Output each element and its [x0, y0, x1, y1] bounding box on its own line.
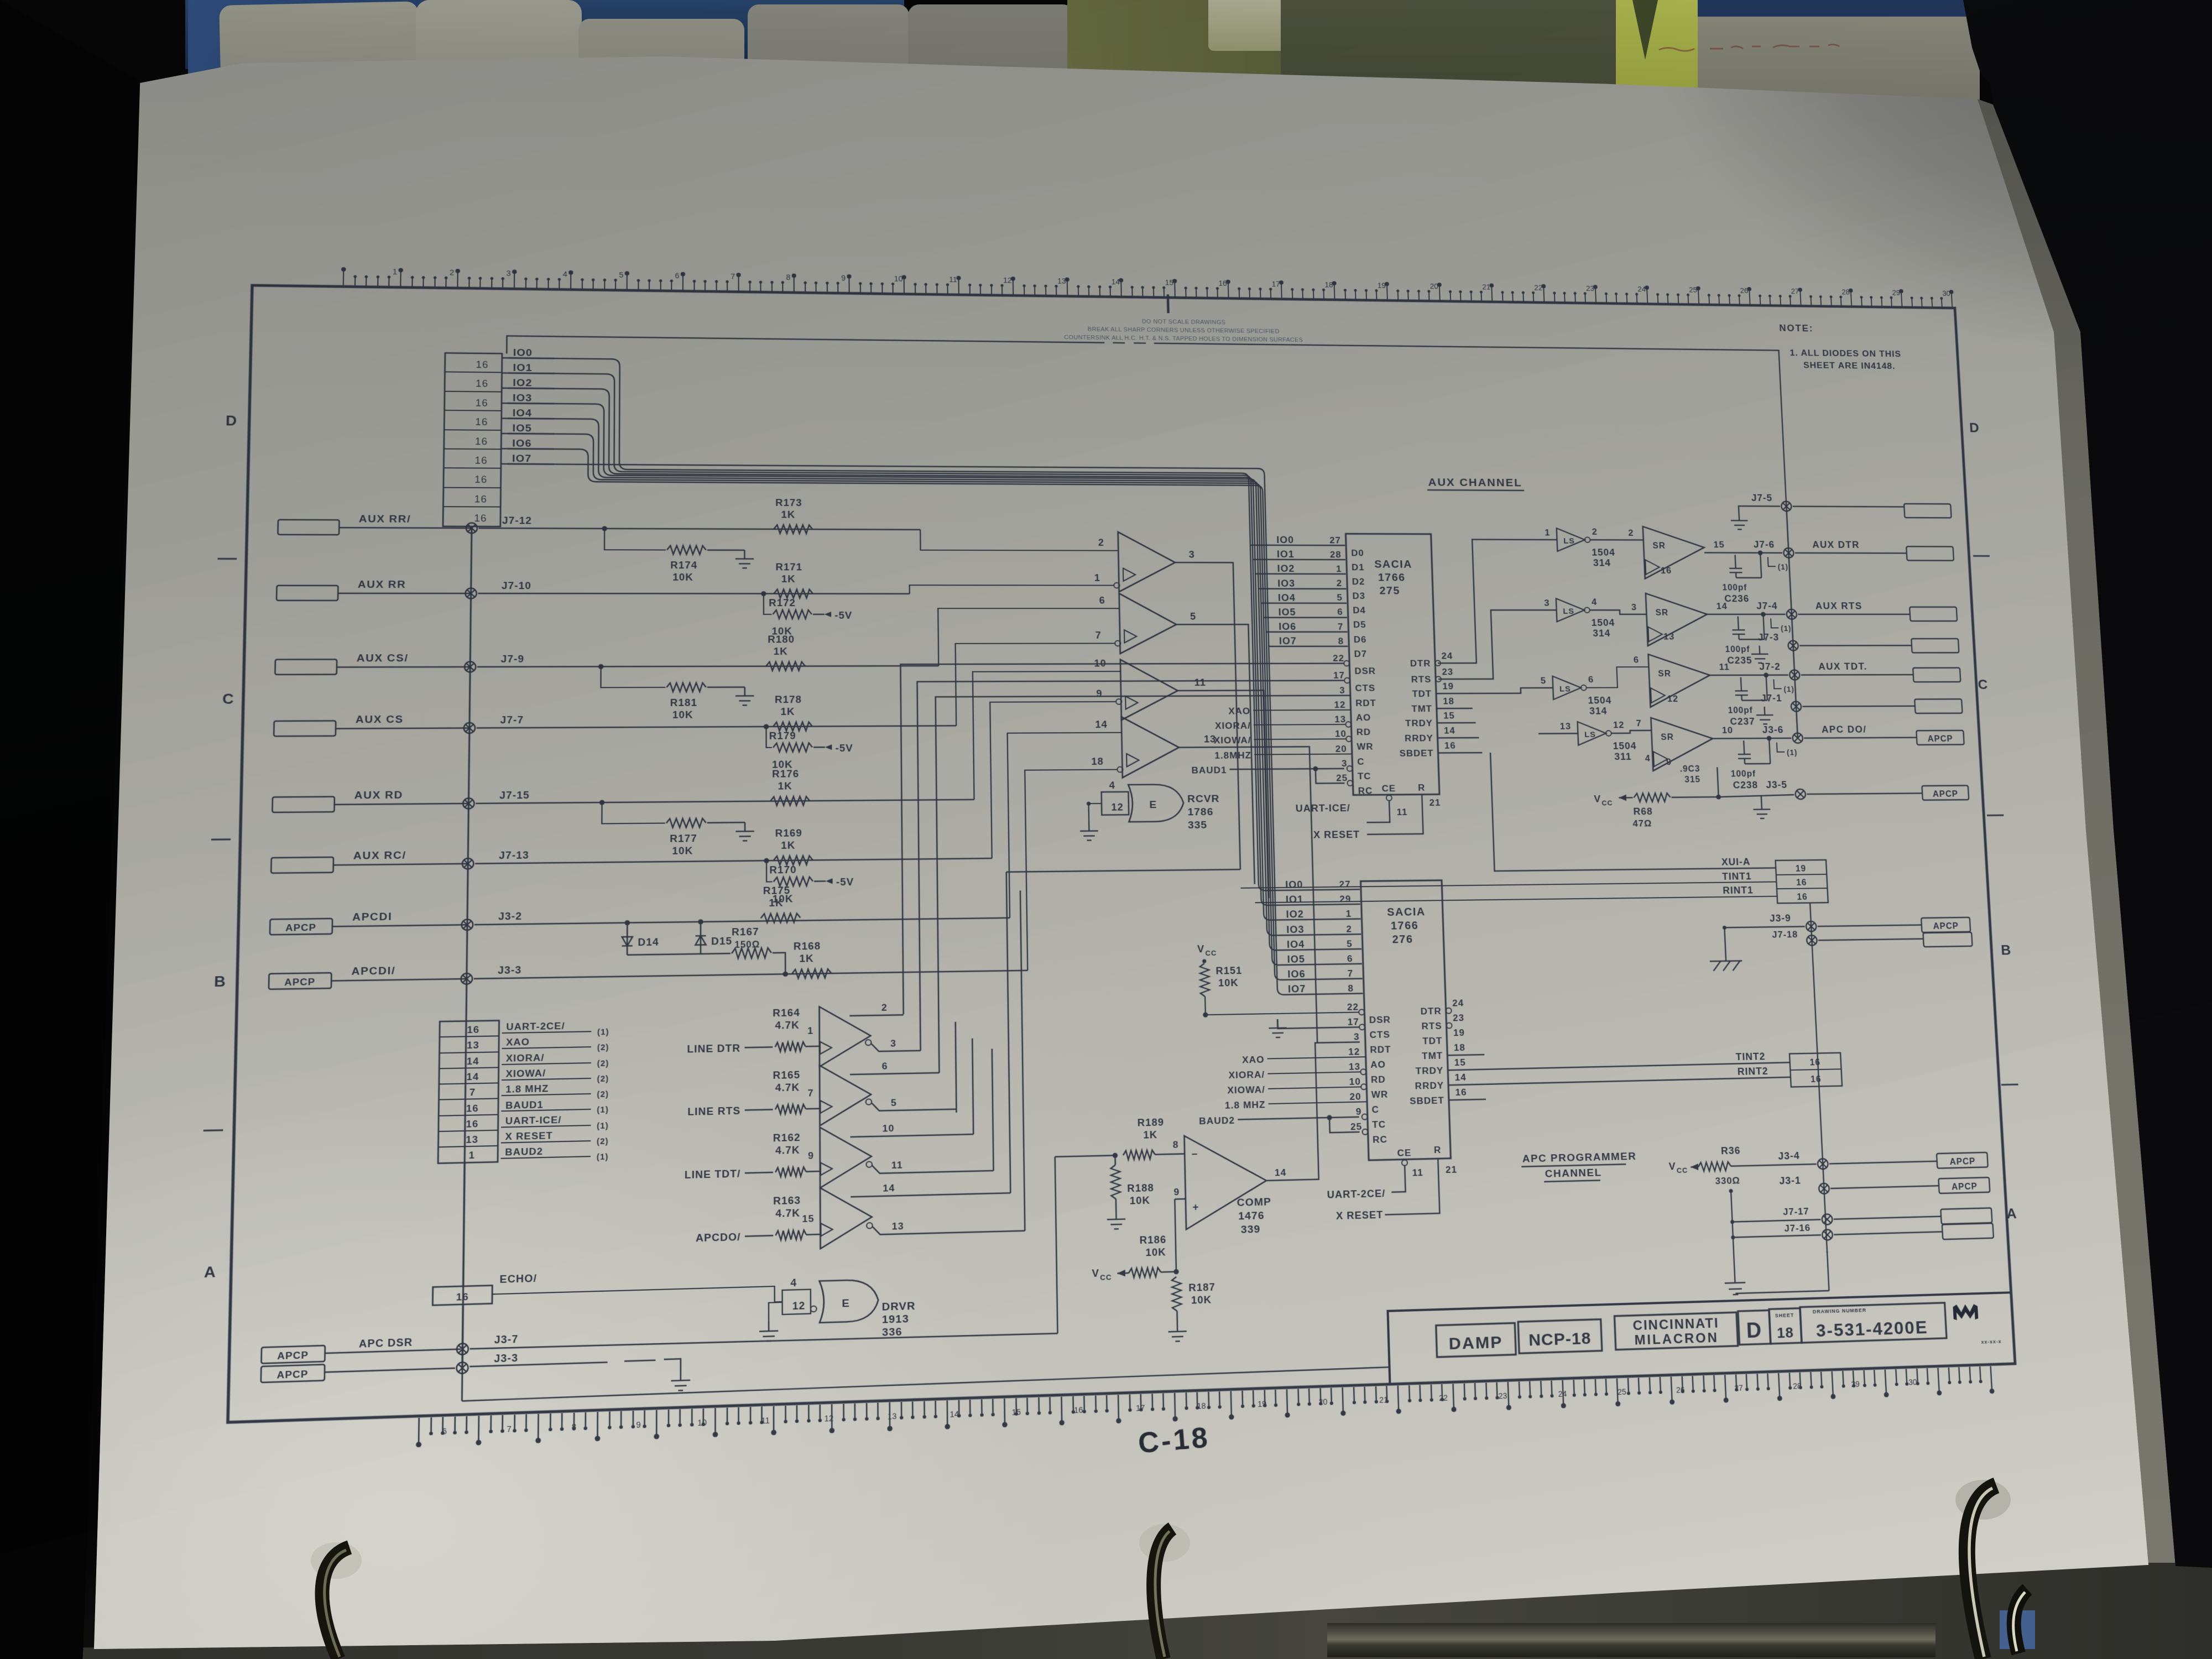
svg-text:11: 11: [949, 276, 957, 284]
edge connector box y482: [1906, 546, 1954, 560]
svg-text:C: C: [1371, 1104, 1379, 1115]
hook (1) at J7-2: [1773, 679, 1781, 688]
svg-text:C: C: [1357, 757, 1365, 767]
inverter LS1 1504 314: [1557, 528, 1585, 551]
svg-text:26: 26: [1740, 287, 1748, 295]
connector box APCP J3-9: [1921, 917, 1970, 932]
blue binder strip along top: [185, 0, 904, 69]
driver triangle 4: [820, 1187, 872, 1249]
ground under J7-3: [1751, 646, 1768, 663]
svg-text:1: 1: [1545, 528, 1551, 538]
ground at J3-3 wire: [671, 1371, 690, 1391]
svg-text:16: 16: [1455, 1087, 1467, 1098]
resistor R151: [1200, 963, 1210, 997]
svg-text:AUX RR/: AUX RR/: [359, 513, 411, 525]
svg-text:7: 7: [1338, 622, 1344, 632]
svg-text:J3-7: J3-7: [494, 1333, 519, 1345]
svg-text:275: 275: [1379, 585, 1400, 597]
svg-text:2: 2: [881, 1002, 888, 1013]
svg-text:29: 29: [1851, 1380, 1860, 1389]
svg-text:12: 12: [1003, 276, 1012, 285]
svg-text:RINT2: RINT2: [1737, 1065, 1768, 1077]
driver triangle 1: [820, 1006, 871, 1067]
svg-text:7: 7: [731, 273, 735, 281]
svg-text:(1): (1): [1787, 749, 1798, 757]
resistor R36: [1698, 1162, 1731, 1171]
svg-text:UART-2CE/: UART-2CE/: [506, 1020, 565, 1032]
svg-text:28: 28: [1330, 549, 1342, 560]
schematic (flat space mapped by homography): [228, 285, 2015, 1422]
svg-text:4: 4: [1592, 597, 1598, 607]
svg-text:16: 16: [476, 359, 488, 370]
junction J7-1: [1791, 702, 1801, 712]
svg-text:R169: R169: [775, 827, 802, 839]
right pin stubs U2: [1447, 1055, 1484, 1055]
svg-text:J3-1: J3-1: [1779, 1175, 1801, 1186]
svg-text:RD: RD: [1371, 1074, 1386, 1085]
driver outputs 10/11: [851, 1134, 974, 1137]
svg-text:2: 2: [1098, 537, 1104, 548]
svg-text:5: 5: [1337, 592, 1343, 603]
svg-text:8: 8: [1338, 636, 1344, 646]
svg-text:8: 8: [1348, 983, 1354, 994]
svg-text:ECHO/: ECHO/: [499, 1272, 537, 1285]
node table XUI-A/TINT1/RINT1: [1776, 860, 1828, 903]
svg-text:10: 10: [1349, 1076, 1361, 1087]
resistor R179: [773, 743, 812, 752]
svg-text:A: A: [2006, 1206, 2018, 1222]
svg-text:2: 2: [1592, 526, 1598, 536]
junction J7-6: [1783, 548, 1794, 558]
svg-text:XIORA/: XIORA/: [506, 1052, 545, 1064]
svg-text:6: 6: [1099, 594, 1105, 606]
svg-text:22: 22: [1534, 284, 1542, 293]
TINT2/RINT2 wires: [1448, 1062, 1790, 1070]
connector stub APCDI/: [269, 973, 331, 989]
svg-text:RTS: RTS: [1411, 674, 1432, 685]
svg-text:(1): (1): [597, 1028, 609, 1037]
svg-text:10: 10: [894, 275, 903, 283]
connector box APCP J3-4: [1937, 1152, 1988, 1168]
svg-text:9: 9: [841, 274, 846, 283]
svg-text:XUI-A: XUI-A: [1721, 856, 1751, 867]
svg-text:1: 1: [1094, 572, 1100, 583]
svg-text:CE: CE: [1397, 1147, 1411, 1158]
svg-text:J7-1: J7-1: [1761, 692, 1782, 703]
top ruler ticks: [343, 270, 1953, 308]
svg-text:21: 21: [1482, 283, 1491, 291]
svg-text:D: D: [1746, 1319, 1762, 1343]
left margin ticks: [217, 558, 237, 560]
wire right J-bus vertical: [1786, 500, 1798, 738]
resistor R163 4.7K: [776, 1230, 806, 1240]
svg-text:R167: R167: [732, 926, 759, 937]
svg-text:DTR: DTR: [1410, 658, 1431, 669]
svg-text:30: 30: [1908, 1378, 1917, 1387]
svg-text:WR: WR: [1371, 1089, 1388, 1100]
svg-text:.9C3: .9C3: [1679, 764, 1700, 774]
svg-text:18: 18: [1454, 1042, 1466, 1053]
svg-text:23: 23: [1586, 285, 1594, 293]
svg-text:APCDI: APCDI: [352, 911, 393, 924]
ground at J3-5: [1753, 801, 1771, 818]
svg-text:30: 30: [1942, 290, 1950, 298]
svg-text:15: 15: [1713, 539, 1725, 549]
connector box APCP J3-7: [261, 1345, 325, 1363]
wire IO top bus: [507, 336, 1105, 360]
svg-text:RDT: RDT: [1355, 698, 1376, 708]
resistor R176: [770, 796, 810, 806]
svg-text:J7-9: J7-9: [501, 653, 525, 665]
svg-text:+: +: [1192, 1201, 1199, 1213]
svg-text:23: 23: [1442, 666, 1453, 677]
title block outline: [1388, 1292, 2015, 1384]
svg-text:1504: 1504: [1592, 547, 1615, 558]
connector box J7-16: [1942, 1223, 1994, 1239]
svg-text:SBDET: SBDET: [1410, 1095, 1444, 1107]
driver SR4: [1651, 717, 1714, 771]
svg-text:16: 16: [476, 397, 488, 408]
svg-text:1504: 1504: [1613, 740, 1637, 752]
svg-text:16: 16: [474, 474, 487, 485]
wire DTR to LS1: [1434, 539, 1562, 663]
svg-text:19: 19: [1442, 681, 1454, 691]
svg-text:9: 9: [636, 1421, 641, 1430]
title box sheet 18: [1769, 1308, 1802, 1344]
svg-text:13: 13: [467, 1039, 479, 1051]
wire APCDI/: [474, 971, 1027, 979]
ground at R177: [735, 822, 754, 841]
wire TINT1: [1241, 882, 1777, 888]
branch to R179: [766, 727, 773, 748]
binder ring 2: [1117, 1515, 1239, 1659]
svg-text:RCVR: RCVR: [1187, 793, 1220, 805]
svg-text:11: 11: [761, 1416, 770, 1426]
svg-text:11: 11: [1412, 1167, 1423, 1178]
ground at DRVR enable: [759, 1322, 778, 1342]
R188 to ground: [1114, 1155, 1116, 1165]
svg-text:D5: D5: [1353, 619, 1366, 630]
svg-text:APC PROGRAMMER: APC PROGRAMMER: [1522, 1150, 1636, 1165]
svg-text:335: 335: [1188, 819, 1208, 831]
svg-text:314: 314: [1589, 705, 1608, 716]
wire to box row y776: [1802, 705, 1914, 707]
svg-text:CC: CC: [1677, 1166, 1688, 1175]
svg-text:RRDY: RRDY: [1415, 1080, 1444, 1092]
svg-text:330Ω: 330Ω: [1715, 1175, 1740, 1187]
svg-text:IO6: IO6: [1287, 968, 1306, 980]
svg-text:J7-10: J7-10: [502, 580, 531, 591]
junction J7-5: [1781, 502, 1792, 512]
svg-text:16: 16: [475, 436, 488, 447]
wire bus verticals to SACIA rows: [956, 1012, 1361, 1112]
edge connector box y776: [1914, 699, 1962, 713]
svg-text:R171: R171: [775, 561, 802, 572]
svg-text:1K: 1K: [769, 897, 783, 909]
svg-text:IO6: IO6: [512, 437, 532, 449]
edge connector box y836: [1916, 731, 1964, 745]
svg-text:339: 339: [1241, 1223, 1261, 1236]
svg-text:R163: R163: [773, 1194, 801, 1207]
svg-text:27: 27: [1791, 288, 1799, 296]
svg-text:17: 17: [1136, 1404, 1145, 1413]
ground at CTS U2: [1277, 1018, 1359, 1029]
svg-text:(1): (1): [1783, 686, 1794, 694]
wire LS2 to SR2: [1590, 610, 1647, 614]
svg-text:(1): (1): [1781, 625, 1792, 633]
resistor R68: [1634, 793, 1671, 802]
svg-text:8: 8: [1173, 1139, 1179, 1150]
svg-text:SACIA: SACIA: [1387, 906, 1426, 919]
wire to box row y392: [1793, 505, 1905, 507]
wire AUX RC/: [333, 864, 468, 865]
svg-text:(1): (1): [597, 1121, 609, 1131]
svg-text:IO7: IO7: [1288, 983, 1306, 995]
svg-text:18: 18: [1324, 281, 1333, 289]
svg-text:TC: TC: [1358, 771, 1371, 781]
wire to receiver pin 10: [973, 671, 1123, 800]
svg-text:6: 6: [675, 272, 680, 280]
svg-text:24: 24: [1558, 1390, 1567, 1399]
svg-text:15: 15: [1165, 279, 1174, 287]
svg-text:UART-2CE/: UART-2CE/: [1327, 1187, 1385, 1200]
svg-text:-5V: -5V: [836, 876, 854, 888]
svg-text:10: 10: [1721, 725, 1733, 735]
wire APCDI: [474, 918, 1010, 925]
wire vertical to J3-7: [462, 1305, 463, 1367]
left-pin wires DSR/CTS/RDT from driver bus: [900, 664, 1354, 1015]
svg-text:3: 3: [1188, 549, 1194, 560]
svg-text:10K: 10K: [1191, 1293, 1212, 1306]
diode D14: [627, 923, 628, 955]
svg-text:TINT1: TINT1: [1722, 870, 1752, 881]
svg-text:276: 276: [1392, 933, 1413, 946]
svg-text:J7-18: J7-18: [1772, 929, 1798, 940]
connector stub AUX CS/: [275, 659, 337, 674]
svg-text:C237: C237: [1730, 716, 1755, 727]
svg-text:CC: CC: [1100, 1273, 1112, 1282]
svg-text:R: R: [1434, 1144, 1442, 1155]
svg-text:APCP: APCP: [1952, 1182, 1978, 1192]
svg-text:100pf: 100pf: [1728, 706, 1753, 715]
junction J7-2: [1790, 670, 1800, 680]
svg-text:R178: R178: [775, 693, 802, 705]
svg-text:4: 4: [790, 1277, 797, 1289]
svg-text:10: 10: [1094, 658, 1107, 669]
svg-text:10: 10: [697, 1418, 707, 1428]
svg-text:APC DSR: APC DSR: [359, 1336, 413, 1350]
ground under J7-1: [1756, 707, 1773, 724]
svg-text:14: 14: [1444, 725, 1455, 735]
svg-text:7: 7: [1347, 968, 1353, 979]
svg-text:3: 3: [1631, 602, 1637, 612]
svg-text:R181: R181: [670, 697, 697, 708]
wire AUX CS/: [337, 666, 470, 668]
svg-text:C: C: [1978, 677, 1989, 692]
resistor R162 4.7K: [775, 1167, 806, 1177]
ground at J7-5: [1739, 506, 1781, 513]
svg-text:V: V: [1197, 943, 1205, 954]
branch to R174: [604, 529, 666, 550]
svg-text:17: 17: [1333, 670, 1345, 680]
junction J7-18: [1807, 935, 1817, 946]
inverter LS4 1504 311: [1578, 722, 1606, 745]
svg-text:16: 16: [466, 1118, 479, 1130]
svg-text:29: 29: [1892, 289, 1900, 297]
junction J7-16: [1822, 1229, 1833, 1240]
inverter LS2 1504 314: [1556, 598, 1585, 622]
svg-text:13: 13: [1057, 278, 1066, 286]
title box drawing number: [1800, 1303, 1947, 1343]
svg-text:8: 8: [786, 274, 791, 282]
title box CINCINNATI MILACRON: [1614, 1312, 1738, 1350]
svg-text:SR: SR: [1652, 541, 1666, 551]
svg-text:IO5: IO5: [1278, 607, 1296, 618]
svg-text:9: 9: [1096, 688, 1103, 699]
svg-text:14: 14: [1454, 1072, 1467, 1083]
svg-text:X RESET: X RESET: [505, 1130, 553, 1142]
svg-text:314: 314: [1593, 628, 1611, 639]
svg-text:1: 1: [393, 268, 397, 276]
svg-text:6: 6: [882, 1061, 888, 1072]
svg-text:IO1: IO1: [1277, 549, 1295, 560]
svg-text:IO3: IO3: [1277, 578, 1295, 589]
svg-text:13: 13: [892, 1220, 904, 1232]
resistor R186: [1129, 1267, 1161, 1277]
svg-text:10: 10: [882, 1123, 894, 1134]
wire to receiver pin 9: [990, 702, 1119, 858]
svg-text:14: 14: [467, 1056, 479, 1067]
svg-text:AUX TDT.: AUX TDT.: [1818, 661, 1867, 672]
svg-text:3: 3: [890, 1038, 896, 1049]
svg-text:CC: CC: [1601, 799, 1613, 807]
svg-text:XIOWA/: XIOWA/: [1227, 1084, 1265, 1095]
svg-text:6: 6: [442, 1427, 447, 1437]
wire AUX RR to R171: [478, 593, 909, 594]
svg-text:CTS: CTS: [1369, 1029, 1390, 1040]
svg-text:R168: R168: [794, 940, 821, 952]
svg-text:RDT: RDT: [1370, 1044, 1391, 1055]
svg-text:4.7K: 4.7K: [775, 1081, 800, 1093]
svg-text:14: 14: [1275, 1167, 1287, 1178]
svg-text:E: E: [842, 1297, 850, 1310]
svg-text:1: 1: [1345, 908, 1352, 919]
svg-text:AUX RD: AUX RD: [354, 789, 404, 802]
hook (1) at J7-6: [1768, 557, 1776, 566]
svg-text:E: E: [1149, 799, 1157, 811]
svg-text:12: 12: [1667, 693, 1678, 704]
svg-text:4.7K: 4.7K: [775, 1144, 800, 1156]
svg-text:X RESET: X RESET: [1313, 829, 1360, 841]
svg-text:J3-2: J3-2: [498, 910, 522, 922]
svg-text:B: B: [214, 973, 226, 990]
svg-text:V: V: [1092, 1267, 1099, 1280]
svg-text:AUX CHANNEL: AUX CHANNEL: [1428, 476, 1522, 489]
ground bottom right group: [1724, 1272, 1746, 1295]
svg-text:28: 28: [1793, 1382, 1802, 1391]
svg-text:IO7: IO7: [512, 453, 532, 465]
svg-text:1K: 1K: [781, 509, 795, 520]
driver triangle 2: [820, 1065, 871, 1126]
svg-text:16: 16: [466, 1103, 479, 1114]
svg-text:XAO: XAO: [1228, 706, 1250, 716]
svg-text:RTS: RTS: [1421, 1020, 1442, 1031]
svg-text:1K: 1K: [781, 839, 795, 851]
svg-text:J7-17: J7-17: [1783, 1206, 1809, 1217]
svg-text:D0: D0: [1351, 547, 1364, 558]
svg-text:R68: R68: [1633, 806, 1653, 817]
svg-text:APCDI/: APCDI/: [351, 964, 395, 977]
wire AUX CS: [477, 726, 956, 728]
svg-text:R186: R186: [1139, 1234, 1166, 1246]
svg-text:R162: R162: [773, 1131, 801, 1144]
title box DAMP: [1436, 1323, 1516, 1357]
svg-text:21: 21: [1379, 1396, 1388, 1405]
svg-text:D14: D14: [638, 936, 659, 948]
svg-text:LS: LS: [1563, 537, 1575, 546]
svg-text:1K: 1K: [774, 645, 788, 656]
svg-text:RRDY: RRDY: [1405, 733, 1433, 743]
svg-text:xx-xx-x: xx-xx-x: [1981, 1339, 2001, 1345]
svg-text:R170: R170: [769, 864, 796, 875]
svg-text:MILACRON: MILACRON: [1634, 1331, 1719, 1348]
svg-text:C235: C235: [1727, 655, 1752, 666]
svg-text:4: 4: [1109, 780, 1115, 791]
svg-text:15: 15: [1443, 710, 1455, 721]
svg-text:APCP: APCP: [276, 1368, 309, 1381]
svg-text:6: 6: [1337, 607, 1343, 617]
IC U-SACIA2 1766 276: [1361, 880, 1451, 1160]
svg-text:RINT1: RINT1: [1723, 884, 1754, 896]
node IO ref box (16x stack): [443, 353, 502, 526]
wire to receiver pin 14: [1008, 733, 1125, 918]
milacron logo M: [1953, 1304, 1978, 1320]
svg-text:13: 13: [1349, 1061, 1361, 1072]
svg-text:D2: D2: [1352, 576, 1365, 587]
svg-text:AUX RTS: AUX RTS: [1815, 601, 1863, 611]
svg-text:SBDET: SBDET: [1399, 748, 1434, 758]
svg-text:NOTE:: NOTE:: [1779, 322, 1814, 333]
svg-text:17: 17: [1271, 280, 1280, 289]
branch to R177: [602, 802, 665, 823]
svg-text:TDT: TDT: [1422, 1035, 1443, 1046]
svg-text:18: 18: [1091, 755, 1104, 766]
wires into XUI box: [1490, 751, 1776, 871]
junction J7-4: [1786, 609, 1797, 619]
svg-text:(2): (2): [597, 1074, 609, 1084]
wire J3-3 to ground: [469, 1362, 607, 1366]
svg-text:(1): (1): [597, 1105, 609, 1115]
svg-text:3: 3: [1354, 1031, 1360, 1042]
svg-text:IO0: IO0: [513, 347, 533, 358]
svg-text:5: 5: [1190, 611, 1196, 622]
svg-text:DAMP: DAMP: [1448, 1332, 1503, 1353]
svg-text:6: 6: [1347, 953, 1353, 964]
svg-text:D4: D4: [1353, 605, 1366, 615]
svg-text:D6: D6: [1354, 634, 1367, 645]
svg-text:APCP: APCP: [1933, 790, 1959, 799]
wire J3-7 to comparator vertical: [470, 1331, 1058, 1351]
svg-text:15: 15: [802, 1213, 814, 1224]
svg-text:J7-5: J7-5: [1751, 492, 1773, 503]
svg-text:10K: 10K: [1145, 1246, 1166, 1258]
svg-text:19: 19: [1453, 1027, 1465, 1038]
svg-text:10: 10: [1335, 728, 1347, 739]
svg-text:47Ω: 47Ω: [1632, 818, 1652, 828]
svg-text:24: 24: [1637, 285, 1646, 294]
svg-text:R188: R188: [1127, 1182, 1154, 1194]
chassis ground B row: [1710, 961, 1743, 971]
